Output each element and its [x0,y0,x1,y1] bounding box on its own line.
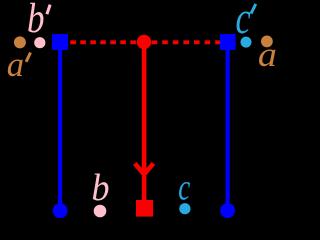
node: blue circle bottom-right [220,203,235,218]
node: blue square top-left [52,34,68,50]
node: red square bottom-center [136,200,153,217]
arrowhead on red edge [135,163,154,174]
label b' prime stroke [47,5,50,15]
node: blue circle bottom-left [53,203,68,218]
dot: pink point b' [34,37,45,48]
dot: cyan point c' [241,37,252,48]
dot: brown point a [261,36,273,48]
wire: red vertical edge center (circle to square) [142,44,147,207]
wire: blue vertical edge right (square to circle) [226,42,230,210]
node: blue square top-right [220,34,236,50]
svg-text:b: b [27,0,45,42]
svg-text:a: a [7,45,24,84]
wire: dashed red edge, left half (square to circle) [70,40,137,44]
dot: brown point a' [14,36,26,48]
label a' prime stroke [26,53,30,62]
label c' prime stroke [251,4,256,14]
dot: cyan point c [179,203,190,214]
wire: dashed red edge, right half (square to circle) [151,40,221,44]
svg-text:c: c [178,168,190,209]
svg-text:c: c [236,0,251,43]
svg-text:b: b [92,167,110,209]
wire: blue vertical edge left (square to circle) [58,42,62,210]
svg-text:a: a [258,35,277,74]
node: red circle top-center [137,35,151,49]
dot: pink point b [94,205,107,218]
